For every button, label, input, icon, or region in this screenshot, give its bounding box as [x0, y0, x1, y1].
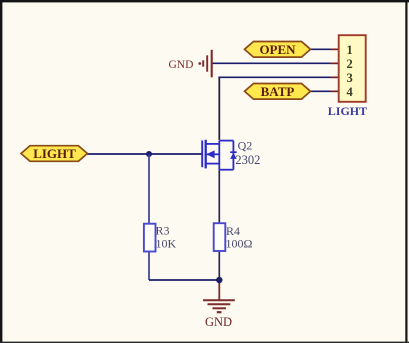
wire: MOSFET source down to R4 top	[218, 170, 220, 224]
wire: R3 bottom down	[148, 252, 150, 281]
gate arrow	[206, 150, 214, 158]
net label LIGHT	[21, 146, 87, 162]
wire: drain vertical from pin3 elbow	[218, 77, 220, 140]
svg-text:2302: 2302	[235, 153, 260, 167]
svg-text:1: 1	[347, 43, 353, 57]
svg-text:GND: GND	[169, 59, 194, 71]
svg-text:LIGHT: LIGHT	[33, 146, 76, 161]
svg-text:4: 4	[347, 85, 354, 99]
source stub	[206, 163, 220, 165]
svg-text:GND: GND	[205, 315, 232, 329]
svg-text:100Ω: 100Ω	[226, 237, 253, 251]
net label BATP	[245, 84, 311, 100]
net label OPEN	[245, 42, 311, 58]
node: bottom junction	[216, 277, 222, 283]
power ground GND (top)	[198, 50, 211, 78]
svg-text:Q2: Q2	[238, 139, 253, 153]
border frame	[0, 0, 409, 2]
svg-text:LIGHT: LIGHT	[328, 104, 367, 118]
body diode top branch	[219, 140, 233, 142]
connector J LIGHT	[339, 35, 366, 102]
ground GND (bottom)	[218, 283, 220, 300]
body diode side	[232, 141, 234, 170]
wire: pin 4 from BATP flag	[310, 90, 339, 92]
body diode bottom branch	[219, 169, 233, 171]
wire: bottom horizontal R3 to junction	[149, 279, 219, 281]
gate bar	[201, 141, 203, 168]
wire: pin 2 horizontal from GND bars	[213, 62, 339, 64]
connector pin stubs	[331, 49, 339, 91]
transistor Q2 2302	[202, 140, 233, 170]
wire: R4 bottom to junction	[218, 251, 220, 280]
svg-text:BATP: BATP	[261, 84, 295, 99]
svg-text:R3: R3	[156, 224, 170, 238]
resistor R4	[214, 223, 226, 251]
node: junction on gate wire	[146, 151, 152, 157]
wire: pin 1 from OPEN flag	[310, 48, 339, 50]
body diode arrow	[230, 153, 237, 159]
middle stub	[206, 153, 220, 155]
channel bar	[205, 140, 207, 169]
pin vertical	[218, 141, 220, 170]
svg-text:10K: 10K	[156, 237, 177, 251]
wire: LIGHT flag to gate	[86, 153, 202, 155]
wire: pin 3 horizontal	[218, 76, 338, 78]
svg-text:OPEN: OPEN	[259, 42, 296, 57]
resistor R3	[144, 224, 156, 252]
wire: junction down to R3 top	[148, 154, 150, 224]
drain stub	[206, 143, 220, 145]
svg-text:2: 2	[347, 57, 353, 71]
svg-text:3: 3	[347, 71, 353, 85]
